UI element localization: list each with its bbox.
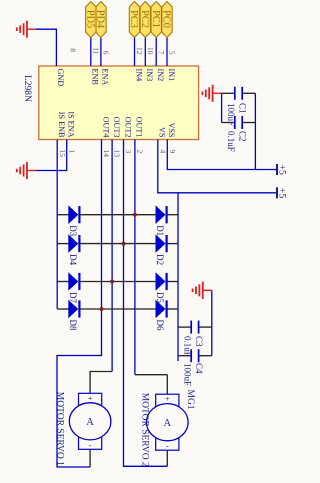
svg-text:D6: D6 [155,320,165,331]
svg-text:4: 4 [158,150,167,154]
svg-text:C2: C2 [237,131,247,142]
power +5 flag (VS) [277,187,288,198]
ground G3 (IS pins) [17,162,57,179]
wire PD5 to pin ENB [90,38,92,67]
port PC1 [150,2,162,38]
svg-text:IN3: IN3 [145,69,154,82]
svg-text:PC0: PC0 [161,10,172,28]
junction node D1/D3 [133,213,137,217]
svg-text:IS ENB: IS ENB [57,112,66,138]
svg-text:D1: D1 [155,225,165,236]
capacitor C1 [222,87,256,126]
diode D7 [68,273,79,304]
diode D5 [155,273,166,304]
ground G1 (GND pin) [17,21,36,38]
ground G2 (C1 C2) [202,85,221,102]
svg-text:D2: D2 [155,254,165,265]
svg-text:D8: D8 [68,320,78,331]
svg-text:A: A [86,417,94,428]
svg-text:GND: GND [56,69,65,87]
svg-text:1: 1 [67,150,76,154]
port PC0 [161,2,173,38]
wire row D1/D3 leads [168,214,179,216]
diode D4 [68,235,79,266]
diode D8 [68,300,79,331]
stub OUT3 jog black [90,372,112,394]
svg-text:-: - [166,441,169,451]
svg-text:D3: D3 [68,225,78,236]
wire OUT2 to motor2 - [124,140,168,467]
wire PC1 to pin IN2 [155,38,157,67]
stub OUT1 jog black [135,374,167,376]
wire PC0 to pin IN1 [166,38,168,67]
svg-text:+: + [165,394,170,404]
svg-text:9: 9 [168,150,177,154]
svg-text:PC1: PC1 [150,10,161,28]
wire ground rail C3 C4 [211,290,213,355]
port PC3 [128,2,140,38]
wire IS ENA [57,140,67,171]
stub motor1 - black [89,449,91,467]
wire row D5/D7 leads [168,281,179,283]
junction node D5/D7 [110,280,114,284]
svg-text:C1: C1 [237,103,247,114]
svg-text:6: 6 [102,51,111,55]
svg-text:OUT4: OUT4 [101,117,110,138]
svg-text:+: + [88,393,93,403]
power +5 flag (VSS) [277,164,288,175]
svg-text:IN2: IN2 [156,69,165,82]
svg-text:VS: VS [158,127,167,138]
svg-text:+5: +5 [277,188,288,199]
motor MG1 MOTOR SERVO 2 [147,394,189,451]
svg-text:-: - [89,440,92,450]
ground G4 (C3 C4) [193,282,212,299]
diode D1 [155,206,166,236]
svg-text:D4: D4 [68,254,78,265]
svg-text:OUT3: OUT3 [112,117,121,138]
stub motor2 + black [166,375,168,395]
svg-text:IS ENA: IS ENA [67,111,76,137]
svg-text:13: 13 [113,150,122,158]
svg-text:14: 14 [102,150,111,158]
svg-text:5: 5 [168,51,177,55]
port PD4 [95,2,107,38]
svg-text:A: A [164,418,172,429]
junction node D2/D4 [122,242,126,246]
svg-text:15: 15 [58,150,67,158]
svg-text:PC3: PC3 [128,10,139,28]
svg-text:MOTOR SERVO 1: MOTOR SERVO 1 [55,392,65,466]
wire VS to +5 [158,140,278,193]
wire row D2/D4 leads [168,243,179,245]
svg-text:ENA: ENA [101,69,110,86]
port PC2 [139,2,151,38]
svg-text:12: 12 [135,47,144,55]
svg-text:0.1uF: 0.1uF [226,131,236,152]
svg-text:C4: C4 [194,363,204,374]
wire PC3 to pin IN4 [134,38,136,67]
svg-text:11: 11 [91,47,100,54]
IC U1 L298N body [39,66,199,140]
wire OUT3 to motor1 + [111,140,113,372]
diode D6 [155,300,166,331]
svg-text:2: 2 [136,150,145,154]
svg-text:7: 7 [157,51,166,55]
wire PD4 to pin ENA [100,38,102,67]
port PD5 [84,2,96,38]
svg-text:IN4: IN4 [134,69,143,82]
svg-text:IN1: IN1 [167,69,176,82]
wire OUT4 to motor1 - [57,140,102,468]
diode D3 [68,206,79,237]
wire ground rail C1 C2 [221,93,223,122]
svg-text:ENB: ENB [91,69,100,86]
wire OUT1 to motor2 + [134,140,136,375]
capacitor C3 [178,321,212,357]
wire VS rail to diodes and C3 C4 [177,193,179,361]
capacitor C2 [222,116,256,152]
svg-text:MG1: MG1 [185,390,195,410]
svg-text:L298N: L298N [22,75,32,102]
svg-text:8: 8 [68,48,77,52]
svg-text:PD5: PD5 [84,10,95,28]
svg-text:OUT1: OUT1 [135,117,144,138]
wire IS ENB / bottom diode rail [56,140,58,310]
junction node D6/D8 [100,307,104,311]
capacitor C4 [178,349,212,386]
stub motor2 - black [166,450,168,466]
svg-text:10: 10 [146,47,155,55]
svg-text:MOTOR SERVO 2: MOTOR SERVO 2 [139,393,149,467]
svg-text:OUT2: OUT2 [123,117,132,138]
motor MOTOR SERVO 1 [69,393,111,450]
wire top rail C1 C2 to VSS line [254,93,256,169]
svg-text:100uF: 100uF [183,363,193,386]
svg-text:PC2: PC2 [139,10,150,28]
svg-text:3: 3 [124,150,133,154]
svg-text:VSS: VSS [167,122,176,137]
svg-text:C3: C3 [194,336,204,347]
svg-text:+5: +5 [277,165,288,176]
wire row D6/D8 leads [168,308,179,310]
wire GND pin to ground [36,29,56,66]
diode D2 [155,235,166,265]
wire PC2 to pin IN3 [144,38,146,67]
wire VSS to +5 [167,140,277,170]
